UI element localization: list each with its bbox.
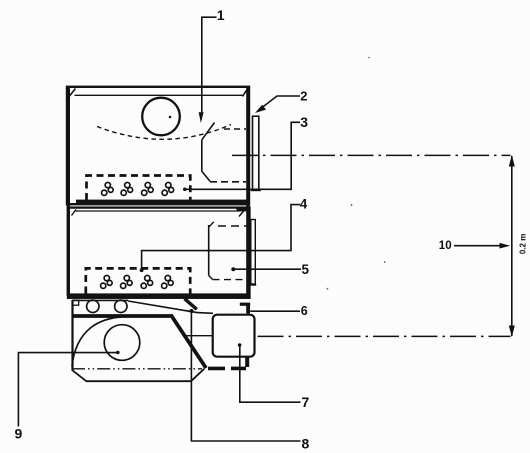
middle cabinet box — [68, 208, 250, 298]
base top edge to box — [197, 312, 213, 315]
middle dashed fan box — [86, 268, 190, 293]
callout 2 arrowhead — [255, 105, 266, 113]
thick elbow above box: vertical — [246, 304, 250, 314]
volute casing — [72, 317, 123, 367]
top dash-dot axis line — [232, 154, 511, 156]
base top edge — [73, 299, 129, 301]
base left notch — [73, 300, 79, 305]
callout 10 line — [454, 245, 502, 247]
base bottom edge — [86, 380, 191, 382]
callout 9 dot — [116, 351, 120, 355]
svg-text:4: 4 — [300, 197, 308, 212]
upper box bottom bar — [76, 200, 247, 205]
callout 3 line — [185, 122, 300, 189]
scan speck — [327, 288, 329, 290]
svg-text:1: 1 — [217, 7, 225, 23]
bottom dash-dot axis line — [258, 335, 511, 337]
upper box inner top line — [75, 94, 244, 96]
thick conveyor line — [73, 314, 172, 318]
inner panel upper: dashed bottom edge — [210, 181, 246, 183]
inner panel middle: dashed top edge — [218, 225, 249, 227]
svg-text:2: 2 — [300, 88, 307, 103]
roller 1 — [87, 300, 99, 312]
base top shallow diagonal — [128, 301, 197, 313]
svg-text:9: 9 — [15, 425, 23, 441]
inner panel middle: top corner tick — [209, 222, 214, 227]
upper+middle cabinet right edge thick — [246, 87, 250, 296]
dimension arrow down — [509, 326, 515, 338]
callout 9 line — [18, 353, 117, 427]
dot inside circle — [169, 116, 172, 119]
scan speck — [351, 204, 353, 206]
inner panel upper: vertical edge — [201, 140, 203, 172]
base dash-dot center line — [72, 368, 202, 370]
callout 2 line — [258, 96, 300, 111]
base left edge — [71, 300, 73, 370]
upper dashed fan box — [87, 176, 191, 201]
dark nub below bar right — [237, 208, 248, 211]
svg-text:3: 3 — [300, 114, 308, 130]
upper fan symbols (4 impellers) — [102, 182, 174, 195]
roller 2 — [115, 300, 127, 312]
scan speck — [368, 57, 370, 59]
callout 4 line — [142, 205, 300, 270]
svg-text:7: 7 — [302, 394, 310, 410]
callout 7 line — [240, 345, 301, 402]
corner tick middle top-left — [72, 210, 77, 216]
callout 1 line — [202, 17, 217, 114]
callout 8 line — [191, 311, 300, 441]
callout 6 line — [250, 310, 300, 312]
svg-text:0.2 m: 0.2 m — [518, 234, 527, 254]
callout 5 line — [234, 268, 301, 270]
callout 5 dot — [231, 267, 235, 271]
right panel bottom cap — [251, 189, 261, 191]
callout 1 arrowhead — [199, 112, 204, 123]
svg-text:5: 5 — [302, 262, 310, 277]
scan speck — [384, 261, 386, 263]
circle (fan housing) — [142, 98, 180, 136]
callout 8 dot — [189, 309, 193, 313]
thick duct elbow below box — [245, 357, 249, 367]
middle fan symbols (4 impellers) — [101, 275, 174, 288]
inner panel middle: vertical edge — [208, 225, 210, 276]
right side panel of middle box — [251, 220, 256, 285]
inner panel middle: dashed bottom edge — [213, 279, 245, 281]
thick dashed duct bottom — [208, 367, 246, 371]
callout 10 arrowhead — [500, 243, 511, 249]
inner panel middle: bottom diagonal — [209, 276, 213, 280]
thick elbow above box: horizontal — [240, 303, 250, 306]
blower wheel circle — [104, 325, 140, 361]
corner tick top-right — [243, 89, 248, 97]
right side panel of upper box — [253, 116, 259, 190]
dimension vertical line — [511, 156, 513, 336]
rounded component box — [213, 315, 255, 357]
upper cabinet box — [67, 87, 249, 204]
dashed sag arc — [97, 125, 231, 140]
base bottom-left chamfer — [72, 370, 87, 381]
upper cabinet left edge thick — [67, 87, 70, 296]
inner panel upper: dashed top edge — [224, 128, 246, 130]
corner tick top-left — [70, 89, 76, 97]
corner tick middle top-right — [239, 211, 244, 217]
svg-text:8: 8 — [302, 436, 310, 452]
callout 7 dot — [238, 343, 242, 347]
inner panel upper: top diagonal — [202, 123, 215, 140]
callout 4 dot — [140, 268, 144, 272]
thin line left of box — [186, 335, 213, 337]
callout 3 dot — [183, 188, 187, 192]
base bottom-right chamfer — [191, 369, 204, 381]
svg-text:6: 6 — [301, 304, 308, 318]
middle box bottom bar — [69, 293, 249, 298]
thick duct branch from bar — [185, 299, 197, 310]
dimension arrow up — [509, 155, 515, 167]
svg-text:10: 10 — [439, 240, 452, 252]
middle box inner top line — [76, 210, 241, 212]
middle right panel bottom cap — [250, 284, 256, 286]
inner panel upper: bottom diagonal — [202, 171, 210, 181]
thick conveyor diagonal — [171, 315, 206, 368]
